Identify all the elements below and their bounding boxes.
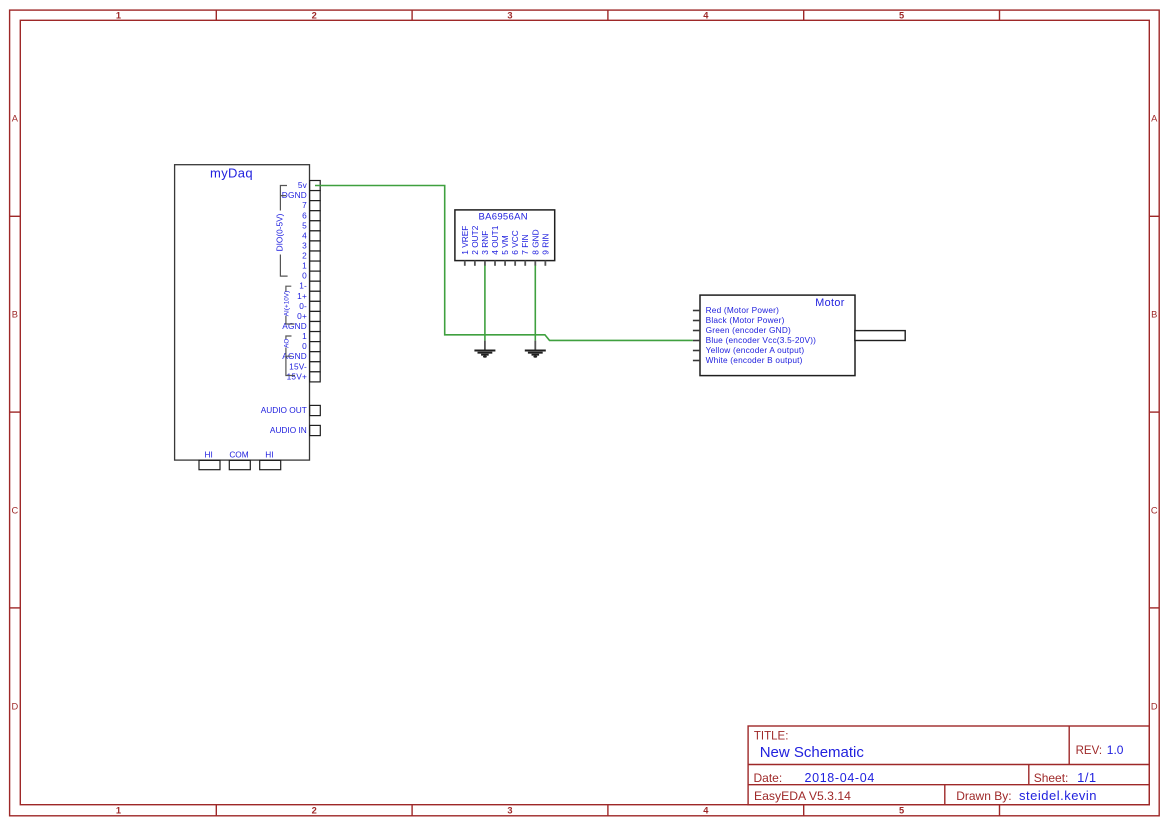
svg-text:1: 1	[302, 331, 307, 341]
pin Blue (encoder Vcc(3.5-20V)) (Motor)	[693, 335, 816, 345]
pin 15V+ (myDaq)	[287, 371, 321, 382]
svg-text:15V+: 15V+	[287, 371, 307, 381]
pin 1- (myDaq)	[299, 281, 320, 292]
svg-text:Black (Motor Power): Black (Motor Power)	[706, 315, 785, 325]
svg-text:Yellow (encoder A output): Yellow (encoder A output)	[706, 345, 805, 355]
svg-text:15V-: 15V-	[289, 361, 307, 371]
svg-text:5 VM: 5 VM	[500, 235, 510, 254]
svg-text:AI(+10V): AI(+10V)	[283, 291, 290, 316]
bracket AO group	[286, 336, 295, 376]
pin 15V- (myDaq)	[289, 361, 320, 372]
svg-text:D: D	[12, 701, 19, 711]
svg-text:Sheet:: Sheet:	[1034, 771, 1069, 785]
svg-text:2: 2	[302, 251, 307, 261]
svg-text:COM: COM	[229, 449, 248, 459]
svg-text:2: 2	[312, 10, 317, 20]
pin 8 GND (BA6956AN)	[530, 229, 540, 265]
wire BA6956AN pin 3 RNF to ground	[484, 266, 486, 341]
svg-text:3: 3	[302, 240, 307, 250]
svg-text:5: 5	[302, 220, 307, 230]
svg-text:5v: 5v	[298, 180, 308, 190]
svg-text:TITLE:: TITLE:	[754, 731, 789, 743]
pin 5 (myDaq)	[302, 220, 320, 231]
pin HI (myDaq bottom)	[260, 449, 281, 469]
svg-text:0: 0	[302, 271, 307, 281]
svg-text:4: 4	[703, 806, 709, 816]
motor shaft	[855, 331, 905, 341]
bracket AI(+10V) group	[286, 286, 295, 324]
pin 3 RNF (BA6956AN)	[480, 231, 490, 266]
svg-text:5: 5	[899, 10, 904, 20]
svg-text:1.0: 1.0	[1107, 743, 1124, 757]
pin 0 (myDaq)	[302, 341, 320, 352]
svg-text:1 VREF: 1 VREF	[460, 226, 470, 255]
component myDaq	[175, 165, 310, 460]
pin 4 OUT1 (BA6956AN)	[490, 225, 500, 266]
label DIO(0-5V)	[274, 213, 284, 251]
ground symbol at x=484.9	[474, 341, 495, 358]
pin 6 (myDaq)	[302, 210, 320, 221]
svg-text:6: 6	[302, 210, 307, 220]
pin HI (myDaq bottom)	[199, 449, 220, 469]
svg-text:White (encoder B output): White (encoder B output)	[706, 355, 803, 365]
svg-text:1/1: 1/1	[1077, 770, 1097, 785]
pin DGND (myDaq)	[282, 190, 320, 201]
pin Green (encoder GND) (Motor)	[693, 325, 791, 335]
svg-text:myDaq: myDaq	[210, 166, 253, 181]
svg-text:BA6956AN: BA6956AN	[478, 211, 527, 222]
pin AUDIO IN (myDaq)	[270, 425, 320, 436]
label AO	[283, 339, 290, 348]
svg-text:4: 4	[302, 230, 307, 240]
svg-text:1-: 1-	[299, 281, 307, 291]
svg-text:EasyEDA V5.3.14: EasyEDA V5.3.14	[754, 789, 851, 803]
pin AGND (myDaq)	[282, 351, 320, 362]
svg-text:HI: HI	[265, 449, 273, 459]
pin 0 (myDaq)	[302, 271, 320, 282]
svg-text:AUDIO OUT: AUDIO OUT	[261, 405, 307, 415]
svg-text:B: B	[12, 310, 18, 320]
svg-text:1: 1	[302, 261, 307, 271]
svg-text:B: B	[1151, 310, 1157, 320]
svg-text:DIO(0-5V): DIO(0-5V)	[274, 213, 284, 251]
ground symbol at x=535.3	[525, 341, 546, 358]
pin 2 OUT2 (BA6956AN)	[470, 225, 480, 266]
wire BA6956AN pin 8 GND to ground	[534, 266, 536, 341]
svg-text:A: A	[1151, 114, 1158, 124]
svg-text:Date:: Date:	[754, 771, 783, 785]
svg-text:Green (encoder GND): Green (encoder GND)	[706, 325, 791, 335]
svg-text:0+: 0+	[297, 311, 307, 321]
svg-text:AUDIO IN: AUDIO IN	[270, 425, 307, 435]
label AI(+10V)	[283, 291, 290, 316]
pin 7 (myDaq)	[302, 200, 320, 211]
svg-text:3 RNF: 3 RNF	[480, 231, 490, 255]
pin Black (Motor Power) (Motor)	[693, 315, 785, 325]
svg-text:C: C	[1151, 505, 1158, 515]
svg-text:AO: AO	[283, 339, 290, 348]
pin 2 (myDaq)	[302, 251, 320, 262]
pin 3 (myDaq)	[302, 240, 320, 251]
svg-text:steidel.kevin: steidel.kevin	[1019, 788, 1097, 803]
pin 0+ (myDaq)	[297, 311, 320, 322]
svg-text:7: 7	[302, 200, 307, 210]
svg-text:3: 3	[507, 806, 512, 816]
svg-text:2: 2	[312, 806, 317, 816]
svg-text:2 OUT2: 2 OUT2	[470, 225, 480, 254]
component Motor	[700, 295, 855, 376]
bracket DIO(0-5V) group	[280, 186, 287, 277]
pin 0- (myDaq)	[299, 301, 320, 312]
pin White (encoder B output) (Motor)	[693, 355, 803, 365]
svg-text:New Schematic: New Schematic	[760, 744, 865, 761]
svg-text:4 OUT1: 4 OUT1	[490, 225, 500, 254]
svg-text:4: 4	[703, 10, 709, 20]
svg-text:1+: 1+	[297, 291, 307, 301]
svg-text:Red (Motor Power): Red (Motor Power)	[706, 305, 780, 315]
wire 5v from myDaq to BA6956AN and Motor (net VCC)	[315, 186, 693, 341]
pin COM (myDaq bottom)	[229, 449, 250, 469]
pin 1 (myDaq)	[302, 261, 320, 272]
svg-text:3: 3	[507, 10, 512, 20]
pin 5v (myDaq)	[298, 180, 320, 191]
svg-text:1: 1	[116, 10, 121, 20]
svg-text:9 RIN: 9 RIN	[540, 233, 550, 254]
pin 1 (myDaq)	[302, 331, 320, 342]
svg-text:HI: HI	[205, 449, 213, 459]
pin Red (Motor Power) (Motor)	[693, 305, 779, 315]
pin 1+ (myDaq)	[297, 291, 320, 302]
pin 9 RIN (BA6956AN)	[540, 233, 550, 265]
svg-text:Blue (encoder Vcc(3.5-20V)): Blue (encoder Vcc(3.5-20V))	[706, 335, 817, 345]
svg-text:7 FIN: 7 FIN	[520, 234, 530, 254]
pin 6 VCC (BA6956AN)	[510, 230, 520, 266]
svg-text:0: 0	[302, 341, 307, 351]
pin 1 VREF (BA6956AN)	[460, 226, 470, 266]
component BA6956AN	[455, 210, 555, 261]
svg-text:A: A	[12, 114, 19, 124]
pin Yellow (encoder A output) (Motor)	[693, 345, 805, 355]
pin 4 (myDaq)	[302, 230, 320, 241]
pin AUDIO OUT (myDaq)	[261, 405, 321, 416]
pin 7 FIN (BA6956AN)	[520, 234, 530, 265]
svg-text:C: C	[12, 505, 19, 515]
svg-text:Motor: Motor	[815, 297, 845, 309]
svg-text:8 GND: 8 GND	[530, 229, 540, 254]
svg-text:5: 5	[899, 806, 904, 816]
svg-text:D: D	[1151, 701, 1158, 711]
pin AGND (myDaq)	[282, 321, 320, 332]
svg-text:Drawn By:: Drawn By:	[956, 789, 1011, 803]
svg-text:0-: 0-	[299, 301, 307, 311]
svg-text:6 VCC: 6 VCC	[510, 230, 520, 254]
svg-text:1: 1	[116, 806, 121, 816]
svg-text:REV:: REV:	[1076, 745, 1102, 757]
svg-text:2018-04-04: 2018-04-04	[805, 771, 875, 785]
pin 5 VM (BA6956AN)	[500, 235, 510, 266]
